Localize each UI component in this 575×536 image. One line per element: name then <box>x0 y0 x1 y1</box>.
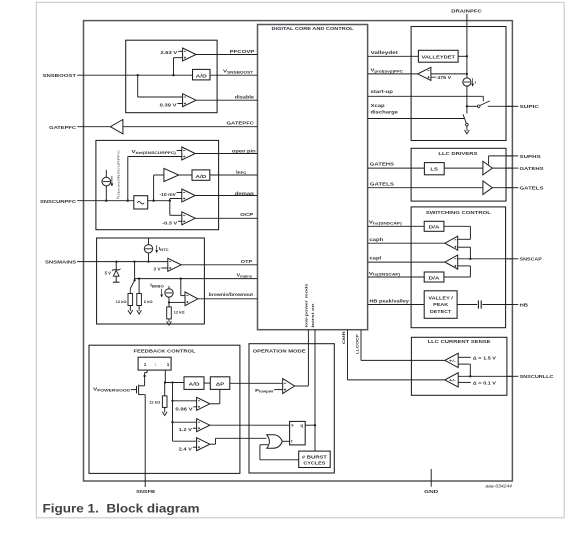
svg-text:SUPHS: SUPHS <box>520 154 541 159</box>
wire GATEHS out <box>492 167 512 169</box>
svg-text:q: q <box>300 423 303 428</box>
wire open-pin plus feed <box>128 156 182 158</box>
comparator demag <box>182 189 195 202</box>
wire disable out <box>196 99 258 101</box>
wire -10mV lead <box>177 192 182 194</box>
PFC boost sense block <box>126 40 217 113</box>
driver GATEHS <box>483 161 492 175</box>
svg-text:demag: demag <box>235 191 254 196</box>
node SNSBOOST branch up <box>172 74 174 76</box>
comparator caph <box>445 236 458 250</box>
wire GATELS out <box>492 187 512 189</box>
A/D converter U-B1 <box>192 170 210 180</box>
svg-text:SNSBOOST: SNSBOOST <box>43 73 77 78</box>
wire riser to IPFC buffer <box>153 175 155 201</box>
wire mirror left pin <box>146 370 148 373</box>
wire 2.4 comparator to OR gate <box>210 443 216 445</box>
svg-text:SUPIC: SUPIC <box>520 104 540 109</box>
svg-text:OTP: OTP <box>241 259 253 264</box>
wire SNSFB drop <box>144 473 146 487</box>
node divider tap <box>133 260 135 262</box>
svg-text:LS: LS <box>430 166 438 171</box>
comparator 0.96V <box>197 397 210 410</box>
comparator delta 0.1V <box>445 373 458 387</box>
node zener tap <box>115 260 117 262</box>
svg-text:A/D: A/D <box>195 174 207 179</box>
D/A converter ls <box>424 272 444 282</box>
current arrow IBI/BO <box>161 289 163 296</box>
svg-text:open pin: open pin <box>232 149 256 154</box>
wire OR lower input <box>260 444 268 446</box>
wire SNSCURPFC stub <box>77 200 96 202</box>
svg-text:A/D: A/D <box>189 382 201 387</box>
current arrow IO(min) <box>111 176 113 185</box>
wire PFCOVP out <box>196 54 258 56</box>
ground 12k feedback <box>164 407 166 410</box>
svg-text:LLCOCP: LLCOCP <box>355 334 360 354</box>
comparator 1.2V <box>197 419 210 432</box>
svg-text:burst on: burst on <box>310 303 315 328</box>
ground 6k mains <box>138 306 140 310</box>
wire riser to 2.63V comparator <box>173 58 175 75</box>
node valleydet drain tap <box>466 55 468 57</box>
resistor 6k mains <box>138 279 140 294</box>
wire SNSCAP to caph comparator <box>469 247 471 259</box>
svg-text:low-power mode: low-power mode <box>303 282 308 327</box>
node ladder 0.96 tap <box>171 400 173 402</box>
svg-text:discharge: discharge <box>371 110 399 115</box>
svg-text:capl: capl <box>369 256 381 261</box>
wire open pin out <box>195 153 257 155</box>
comparator capl <box>445 255 458 269</box>
wire HB out <box>482 304 512 306</box>
net CMR <box>347 330 349 380</box>
node SNSBOOST branch down <box>137 74 139 76</box>
wire SNSCAP in <box>458 258 512 260</box>
svg-text:GATEPFC: GATEPFC <box>227 121 255 126</box>
current source startup I <box>463 78 471 86</box>
wire snscurllc to 1.5 comparator <box>458 363 470 365</box>
PFC current sense block <box>96 140 219 229</box>
svg-text:-0.3 V: -0.3 V <box>162 221 178 226</box>
svg-text:OCP: OCP <box>240 212 253 217</box>
svg-text:caph: caph <box>369 237 383 242</box>
svg-text:brownin/brownout: brownin/brownout <box>209 292 254 297</box>
wire SNSFB source line <box>144 395 146 474</box>
comparator 0.39V disable <box>183 94 196 107</box>
ground 12k bibo <box>168 319 170 320</box>
node comparator ladder tap <box>171 381 173 383</box>
wire SNSMAINS main <box>97 261 168 263</box>
node buffer tap <box>152 200 154 202</box>
node ladder 1.2 tap <box>171 421 173 423</box>
svg-text:LLC DRIVERS: LLC DRIVERS <box>438 151 477 156</box>
svg-text:GND: GND <box>424 489 439 494</box>
D/A converter hs <box>424 221 444 231</box>
wire SNSCURPFC into filter <box>96 200 133 202</box>
svg-text:Valleydet: Valleydet <box>371 50 399 55</box>
current source IO(min)SNSCURPFC <box>105 170 107 178</box>
wire Vdet lead <box>177 150 182 152</box>
comparator OTP 3V <box>168 258 181 271</box>
wire Vhs in <box>368 225 425 227</box>
svg-text:HB: HB <box>520 302 529 307</box>
svg-text:start-up: start-up <box>371 89 394 94</box>
wire demag plus feed <box>169 199 171 201</box>
wire filter out <box>148 200 170 202</box>
wire 0.96 comparator to deltaP <box>210 403 220 405</box>
resistor 12k mains <box>129 289 131 294</box>
A/D converter U-A1 <box>193 69 211 80</box>
svg-text:CYCLES: CYCLES <box>303 461 325 466</box>
delta-P block <box>210 377 230 390</box>
svg-text:12 kΩ: 12 kΩ <box>149 399 161 404</box>
wire ocp minus feed <box>169 201 171 216</box>
wire GATEHS in <box>368 167 425 169</box>
wire SNSBOOST stub <box>77 74 126 76</box>
current source IBI/BO <box>168 286 170 289</box>
svg-text:2.4 V: 2.4 V <box>179 446 193 451</box>
svg-text:aaa-034244: aaa-034244 <box>485 484 512 489</box>
wire SUPHS stub <box>507 155 519 157</box>
wire valley detect to cap <box>457 304 477 306</box>
svg-text:I: I <box>475 80 476 85</box>
svg-text:-10 mV: -10 mV <box>160 192 177 197</box>
svg-text:5 V: 5 V <box>105 270 111 275</box>
wire 3V lead <box>161 267 167 269</box>
switching control block <box>411 207 506 328</box>
llc current sense block <box>411 337 507 395</box>
svg-text:GATEPFC: GATEPFC <box>49 125 77 130</box>
node snscurllc branch <box>469 375 471 377</box>
wire GATEHS stub <box>507 167 519 169</box>
wire SNSCURLLC in <box>458 375 512 377</box>
node INTC tap <box>147 260 149 262</box>
wire SNSMAINS stub <box>77 261 97 263</box>
wire A/D to deltaP <box>204 382 210 384</box>
wire capl out <box>368 261 445 263</box>
wire brownin out <box>198 298 258 300</box>
svg-text:1: 1 <box>144 362 147 367</box>
capacitor HB <box>477 300 479 308</box>
svg-text:VALLEY /: VALLEY / <box>428 296 453 301</box>
svg-text:DIGITAL CORE AND CONTROL: DIGITAL CORE AND CONTROL <box>272 26 354 31</box>
svg-text:ΔP: ΔP <box>216 382 225 387</box>
wire valleydet to drain <box>458 55 467 57</box>
wire GATELS stub <box>507 187 519 189</box>
wire divider drop <box>134 262 136 281</box>
svg-text:Figure 1. Block diagram: Figure 1. Block diagram <box>43 501 200 515</box>
wire ladder to 0.96 comparator <box>173 400 197 402</box>
comparator delta 1.5V <box>445 353 458 367</box>
svg-text:SNSMAINS: SNSMAINS <box>45 260 76 265</box>
resistor 12k feedback <box>162 396 167 408</box>
OR gate burst <box>267 435 283 448</box>
wire Vprot out to core <box>368 73 418 75</box>
wire demag out <box>195 195 257 197</box>
node mirror drain <box>143 375 145 377</box>
svg-text:SNSCURPFC: SNSCURPFC <box>40 199 77 204</box>
wire buffer to A/D <box>179 174 192 176</box>
svg-text:CMR: CMR <box>341 331 346 344</box>
comparator brownin/brownout <box>185 292 198 306</box>
svg-text:OPERATION MODE: OPERATION MODE <box>253 349 306 354</box>
wire dropper to 0.39V comparator <box>137 75 139 97</box>
comparator 2.63V PFCOVP <box>183 48 196 61</box>
wire to A/D feedback <box>165 382 184 384</box>
wire GATEPFC stub <box>77 126 110 128</box>
svg-text:12 kΩ: 12 kΩ <box>116 299 128 304</box>
wire LS to driver <box>444 167 483 169</box>
wire OCP out <box>195 217 257 219</box>
node brownin tap <box>180 277 182 279</box>
wire 0.39V lead <box>177 103 182 105</box>
lowpass filter block <box>134 196 148 209</box>
svg-text:D/A: D/A <box>429 275 441 280</box>
svg-text:1: 1 <box>167 362 170 367</box>
wire Plowpwr lead <box>274 389 283 391</box>
node demag ocp tap <box>169 200 171 202</box>
svg-text:SNSCAP: SNSCAP <box>520 257 542 262</box>
wire SUPIC out <box>488 105 512 107</box>
wire q to burst line <box>305 424 315 426</box>
wire SUPIC stub <box>507 105 519 107</box>
svg-text:1.2 V: 1.2 V <box>179 427 193 432</box>
wire ladder to 1.2 comparator <box>173 421 197 423</box>
svg-text:GATEHS: GATEHS <box>520 166 544 171</box>
zener diode 5V <box>115 262 117 270</box>
wire VSNSBOOST out <box>210 74 258 76</box>
feedback control block <box>89 345 240 473</box>
svg-text:DRAINPFC: DRAINPFC <box>451 9 482 14</box>
wire SUPHS <box>488 156 490 165</box>
wire OR to r <box>282 440 289 442</box>
svg-text:disable: disable <box>235 95 255 100</box>
wire IPFC out <box>210 174 258 176</box>
valley detector block <box>418 50 458 62</box>
svg-text:DETECT: DETECT <box>430 309 452 314</box>
wire DRAINPFC drop <box>466 14 468 78</box>
wire SNSBOOST main <box>126 74 193 76</box>
node 6k tap <box>138 277 140 279</box>
llc drivers block <box>411 148 506 201</box>
svg-text:Xcap: Xcap <box>371 103 385 108</box>
svg-text:HB peak/valley: HB peak/valley <box>369 298 409 303</box>
node ovp drain tap <box>466 73 468 75</box>
wire Vmains to brownin minus <box>180 279 182 296</box>
wire ladder riser <box>172 383 174 442</box>
svg-text:# BURST: # BURST <box>302 454 327 459</box>
svg-text:PEAK: PEAK <box>433 302 449 307</box>
comparator 2.4V <box>197 438 210 451</box>
svg-text:475 V: 475 V <box>437 75 451 80</box>
node divider lever pivot <box>133 279 135 281</box>
wire drain to supic switch <box>466 86 468 113</box>
svg-text:Δ = 1.5 V: Δ = 1.5 V <box>473 355 496 360</box>
wire delta 0.1 lead <box>458 381 471 383</box>
switch supic <box>477 105 480 108</box>
wire Vmains rail <box>135 278 258 280</box>
IC outer boundary box <box>84 21 513 481</box>
valley peak detect block <box>424 291 457 319</box>
current arrow INTC <box>156 245 158 252</box>
A/D converter feedback <box>184 377 204 390</box>
current mirror 1:1 <box>138 357 171 370</box>
resistor 12k bibo <box>168 302 170 307</box>
wire deltaP out to Plowpwr <box>230 382 283 384</box>
svg-text:GATELS: GATELS <box>520 186 544 191</box>
svg-text:GATELS: GATELS <box>370 181 394 186</box>
wire caph out <box>368 242 445 244</box>
svg-text:LLC CURRENT SENSE: LLC CURRENT SENSE <box>428 339 491 344</box>
wire mirror right pin <box>164 370 166 382</box>
svg-text:FEEDBACK CONTROL: FEEDBACK CONTROL <box>134 349 196 354</box>
wire 475V comparator back to drain <box>431 73 467 75</box>
wire low-power mode riser <box>295 385 309 387</box>
svg-text:SNSFB: SNSFB <box>136 489 156 494</box>
wire start-up <box>368 95 484 97</box>
svg-text:VALLEYDET: VALLEYDET <box>422 55 456 60</box>
wire GATELS in <box>368 187 483 189</box>
node q burst junction <box>314 424 316 426</box>
wire GND stub <box>430 469 432 487</box>
svg-text:2.63 V: 2.63 V <box>160 50 178 55</box>
startup and xcap block <box>411 27 506 141</box>
comparator open pin <box>182 147 195 160</box>
wire SNSCAP stub <box>507 258 519 260</box>
wire 2.63V lead <box>178 50 182 52</box>
net LLCOCP <box>360 330 362 361</box>
mains sense block <box>97 238 205 324</box>
current arrow I <box>472 78 474 85</box>
wire Vls in <box>368 276 425 278</box>
svg-text:6 kΩ: 6 kΩ <box>144 299 154 304</box>
transistor Q1 VPOWERGOOD <box>131 389 137 391</box>
svg-text:IO(min)SNSCURPFC: IO(min)SNSCURPFC <box>116 150 121 199</box>
gate driver GATEPFC <box>110 120 123 134</box>
svg-text:PFCOVP: PFCOVP <box>230 49 255 54</box>
burst cycles counter block <box>299 451 331 467</box>
wire D/A ls route <box>458 265 471 267</box>
switch divider lever <box>130 280 134 288</box>
svg-text:A/D: A/D <box>196 73 208 78</box>
node SNSCAP branch <box>469 258 471 260</box>
wire xcap discharge <box>368 118 465 120</box>
wire brownin plus feed <box>169 301 185 303</box>
svg-text:+/-: +/- <box>449 378 456 382</box>
svg-text:+/-: +/- <box>449 359 456 363</box>
svg-text:SWITCHING CONTROL: SWITCHING CONTROL <box>426 210 491 215</box>
level shifter LS <box>424 163 444 175</box>
digital core and control block <box>258 25 368 330</box>
wire burst on line <box>314 330 316 451</box>
wire GATEPFC from core <box>123 126 258 128</box>
ground xcap <box>466 126 468 129</box>
driver GATELS <box>483 181 492 195</box>
ground 12k mains <box>129 306 131 310</box>
svg-text:Δ = 0.1 V: Δ = 0.1 V <box>473 380 496 385</box>
switch xcap <box>463 114 466 123</box>
svg-text:GATEHS: GATEHS <box>370 162 394 167</box>
wire HB peak/valley in <box>368 304 425 306</box>
wire SNSCURLLC stub <box>507 375 519 377</box>
wire D/A hs route <box>444 225 471 227</box>
comparator OCP <box>182 212 195 225</box>
node current source tap <box>105 200 107 202</box>
wire delta 1.5 lead <box>458 356 471 358</box>
wire 1.2 comparator to flipflop s <box>210 424 290 426</box>
operation mode block <box>249 344 334 473</box>
svg-text:SNSCURLLC: SNSCURLLC <box>520 374 555 379</box>
svg-text:D/A: D/A <box>429 225 441 230</box>
wire ladder to 2.4 comparator <box>173 440 197 442</box>
node mirror out <box>164 381 166 383</box>
current source INTC <box>148 238 150 245</box>
value 475 V <box>431 76 436 78</box>
wire -0.3V lead <box>178 220 182 222</box>
wire burst cycles feedback <box>260 459 299 461</box>
svg-text:0.39 V: 0.39 V <box>160 102 178 107</box>
svg-text:3 V: 3 V <box>153 267 161 272</box>
svg-text:0.96 V: 0.96 V <box>175 406 193 411</box>
wire OTP out <box>181 264 257 266</box>
wire HB stub <box>507 304 519 306</box>
comparator Plowpwr <box>283 379 295 394</box>
flip-flop burst <box>290 421 306 445</box>
node open pin tap <box>127 200 129 202</box>
buffer IPFC <box>164 168 179 181</box>
wire Valleydet <box>368 55 419 57</box>
comparator Vprot(ovp)PFC 475V <box>418 67 431 80</box>
svg-text:12 kΩ: 12 kΩ <box>174 309 186 314</box>
